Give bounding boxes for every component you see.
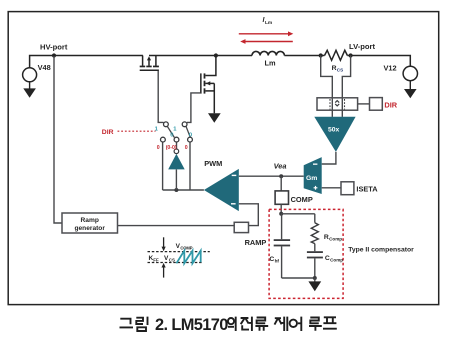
node driver input (174, 188, 178, 192)
node Q2 drain junction (214, 53, 218, 57)
svg-text:V12: V12 (384, 63, 397, 72)
resistor Rcomp (314, 214, 316, 223)
switch A lever (167, 126, 174, 137)
svg-text:COMP: COMP (180, 245, 192, 250)
wire: PWM output rail to gate drivers (163, 189, 204, 191)
프 (323, 317, 337, 328)
polarity mux box (317, 98, 358, 110)
svg-text:50x: 50x (328, 126, 340, 133)
wire: Vea net (239, 175, 304, 177)
svg-text:Comp: Comp (330, 258, 343, 263)
voltage source V12 (403, 66, 417, 80)
svg-text:FF: FF (153, 257, 159, 262)
ground below V12 (409, 81, 411, 90)
그 (120, 319, 134, 328)
svg-text:0: 0 (170, 133, 173, 139)
svg-text:Type II compensator: Type II compensator (348, 246, 414, 253)
svg-text:generator: generator (74, 225, 105, 232)
svg-text:0: 0 (157, 145, 160, 151)
svg-text:COMP: COMP (291, 195, 313, 204)
wire: top rail middle segment (149, 55, 252, 57)
wire: Rcs sense lines down to mux (321, 56, 333, 99)
svg-text:Gm: Gm (306, 175, 317, 182)
wire compensator top (281, 213, 315, 215)
svg-text:0: 0 (189, 133, 192, 139)
svg-text:LV-port: LV-port (349, 42, 375, 51)
류 (255, 318, 268, 331)
svg-text:0: 0 (185, 145, 188, 151)
capacitor Ccomp (314, 244, 316, 252)
resistor Rcs (shunt) (325, 50, 348, 60)
capacitor Chf (281, 214, 283, 239)
wire: PWM ramp input (239, 204, 258, 226)
svg-text:Comp: Comp (329, 237, 342, 242)
node HV-port junction (52, 53, 56, 57)
ramp waveform annotation (148, 251, 210, 253)
wire: switch contact 1 drop (162, 142, 164, 190)
svg-text:V48: V48 (38, 63, 51, 72)
svg-text:Lm: Lm (265, 20, 272, 26)
svg-text:HV-port: HV-port (40, 43, 68, 52)
svg-text:Lm: Lm (265, 58, 277, 67)
ground below Q2 (208, 113, 221, 122)
wire: rail to V12 (347, 56, 410, 67)
wire compensator bottom (282, 277, 315, 279)
svg-text:DIR: DIR (102, 129, 114, 136)
caption: 그림 2. LM5170의 전류 제어 루프 (120, 317, 337, 331)
transistor Q2 (LV-side MOSFET to ground) (206, 56, 216, 76)
루 (309, 318, 322, 331)
RAMP box (234, 222, 248, 232)
svg-text:Ramp: Ramp (81, 217, 99, 224)
wire: Gm to ISETA (322, 187, 341, 189)
svg-text:RAMP: RAMP (245, 238, 267, 247)
svg-text:Vea: Vea (274, 161, 287, 170)
op-amp PWM comparator (204, 169, 239, 211)
svg-text:PWM: PWM (204, 159, 222, 168)
sawtooth waveform (176, 251, 200, 264)
switch B lever (186, 126, 190, 137)
op-amp Gm error amplifier (304, 157, 322, 194)
svg-text:ISETA: ISETA (356, 185, 378, 194)
svg-text:hf: hf (275, 259, 280, 264)
림 (136, 317, 147, 331)
node Vea (279, 174, 283, 178)
node compensator top (279, 212, 283, 216)
COMP box (275, 191, 288, 204)
svg-text:(0-0): (0-0) (166, 145, 177, 151)
wire: top HV rail left segment (30, 56, 143, 68)
gate driver inverter (174, 149, 179, 154)
node Rcs right / LV-port (349, 53, 353, 57)
svg-text:DIR: DIR (384, 100, 397, 109)
Type II compensator dashed outline (269, 209, 343, 298)
wire: Q2 gate down to switch B (187, 93, 200, 123)
current arrow right (239, 33, 289, 35)
wire: switch contact 3 drop (189, 142, 191, 190)
wire: 50x output to Gm (322, 152, 336, 164)
op-amp 50x current sense amplifier (314, 117, 355, 152)
node compensator ground (313, 276, 317, 280)
wire: ramp generator to RAMP (117, 225, 234, 227)
voltage source V48 (23, 68, 37, 82)
wire: Q1 gate down to switch A (158, 71, 163, 122)
node Rcs left (319, 53, 323, 57)
전 (241, 317, 252, 331)
의 (228, 318, 234, 324)
current arrow left (245, 41, 293, 43)
wire: HV feed-forward to ramp generator (54, 56, 62, 223)
wire: rail inductor to Rcs (284, 55, 324, 57)
switch pole circles (164, 122, 169, 127)
ISETA box (341, 182, 354, 195)
ground below V48 (29, 82, 31, 89)
svg-text:CS: CS (337, 68, 343, 73)
Ramp generator box (62, 213, 118, 233)
wire: COMP pin (280, 176, 282, 191)
wire: mux to DIR box (358, 103, 370, 105)
inductor Lm (252, 51, 284, 55)
제 (275, 317, 288, 331)
svg-text:2. LM5170: 2. LM5170 (155, 316, 228, 334)
어 (290, 320, 297, 327)
wire: switch contact 2 to driver bubble (176, 142, 178, 149)
ground compensator (314, 278, 316, 282)
svg-text:CS: CS (169, 257, 175, 262)
transistor Q1 (HV-side MOSFET, drawn sideways) (143, 56, 156, 66)
DIR input box (370, 98, 383, 111)
